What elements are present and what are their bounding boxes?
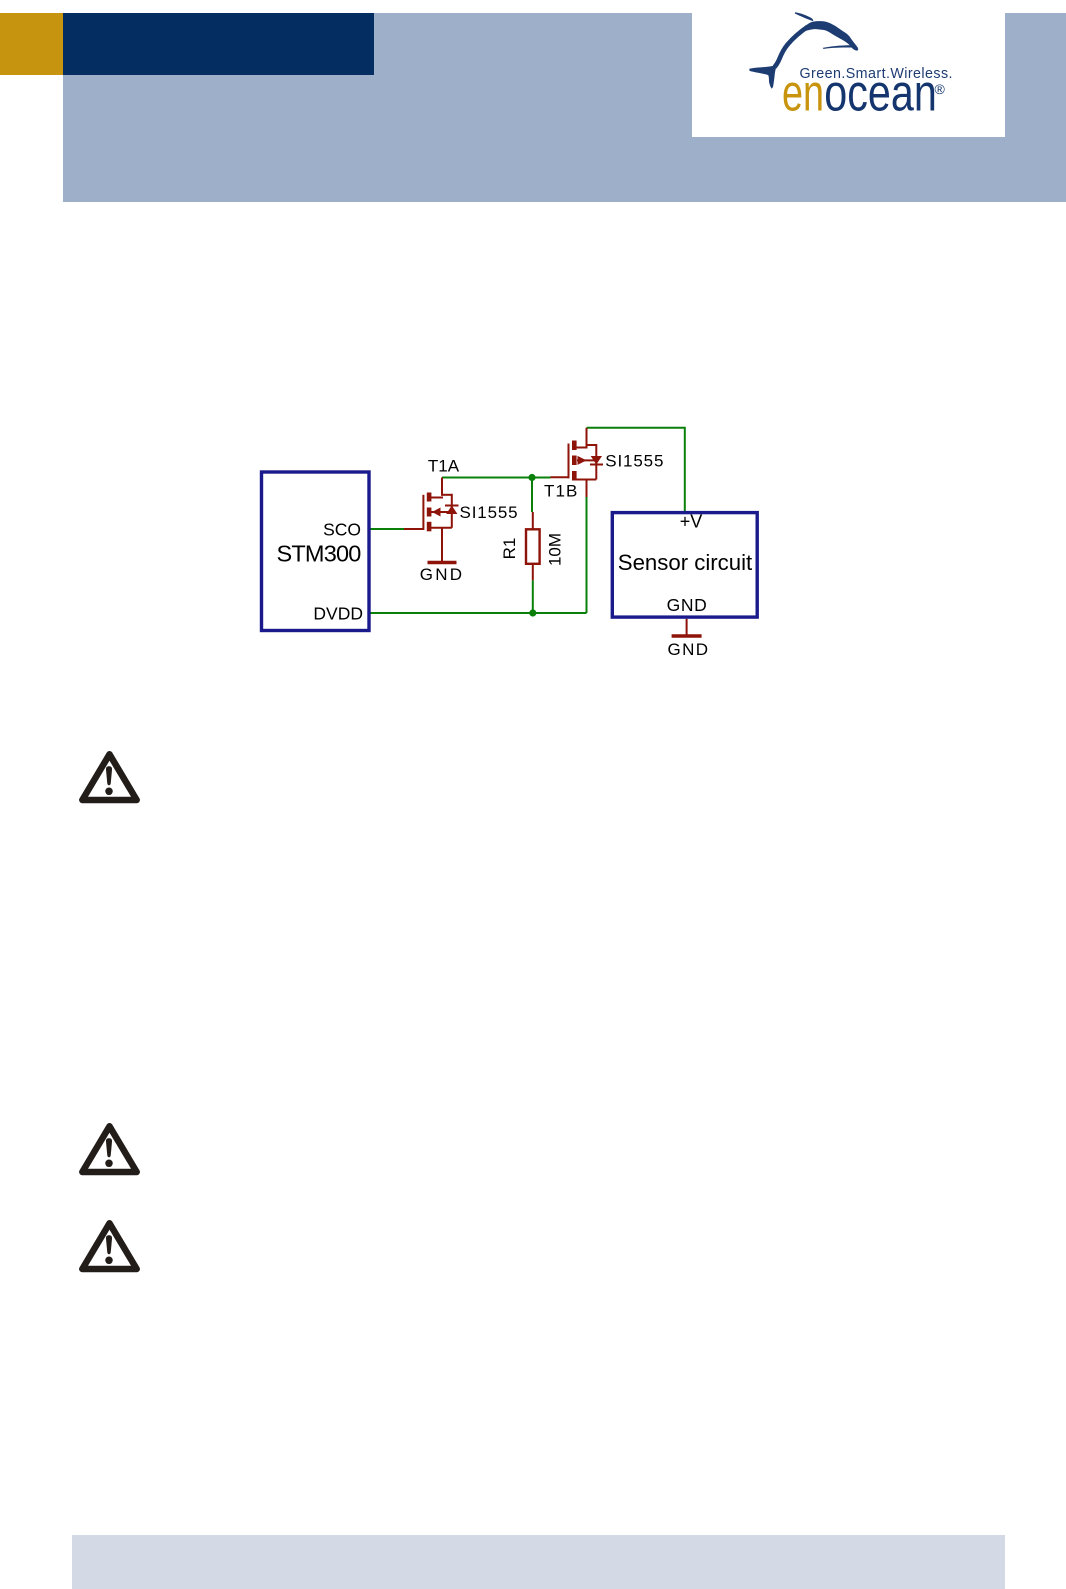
svg-text:GND: GND — [668, 640, 710, 659]
svg-text:GND: GND — [667, 595, 708, 615]
svg-text:GND: GND — [420, 565, 464, 584]
svg-text:®: ® — [935, 81, 946, 97]
svg-text:SI1555: SI1555 — [605, 452, 664, 471]
svg-text:Sensor circuit: Sensor circuit — [618, 550, 752, 575]
svg-text:DVDD: DVDD — [313, 604, 363, 624]
svg-text:R1: R1 — [500, 538, 519, 560]
svg-text:10M: 10M — [546, 533, 565, 566]
svg-text:SI1555: SI1555 — [460, 503, 519, 522]
svg-text:en: en — [782, 65, 824, 123]
svg-text:ocean: ocean — [824, 65, 937, 123]
svg-text:STM300: STM300 — [276, 541, 361, 567]
svg-text:T1A: T1A — [428, 457, 460, 476]
svg-text:SCO: SCO — [323, 520, 361, 540]
svg-text:+V: +V — [680, 512, 703, 532]
svg-text:T1B: T1B — [544, 482, 578, 501]
